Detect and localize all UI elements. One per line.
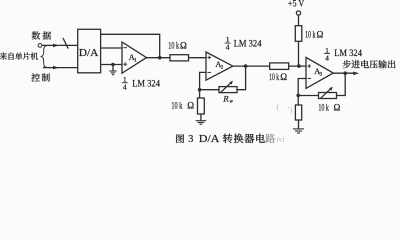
svg-text:3: 3 <box>320 71 323 77</box>
svg-text:’): ’) <box>288 106 293 114</box>
svg-text:Ω: Ω <box>334 102 341 112</box>
svg-text:R: R <box>222 93 229 103</box>
svg-text:D/A: D/A <box>79 48 99 59</box>
svg-text:4: 4 <box>325 53 329 62</box>
svg-text:10 k: 10 k <box>318 102 329 112</box>
svg-text:3: 3 <box>188 134 193 145</box>
svg-text:Ω: Ω <box>280 72 287 82</box>
svg-text:Ω: Ω <box>187 100 194 110</box>
svg-text:10 k: 10 k <box>305 30 316 40</box>
svg-text:(: ( <box>277 103 280 112</box>
svg-text:Ω: Ω <box>180 41 187 51</box>
svg-text:4: 4 <box>123 83 127 92</box>
svg-text:10 k: 10 k <box>168 41 179 51</box>
svg-text:+5 V: +5 V <box>288 0 305 9</box>
svg-text:10 k: 10 k <box>269 72 279 82</box>
svg-text:LM 324: LM 324 <box>234 38 262 49</box>
svg-text:w: w <box>229 99 233 105</box>
svg-text:4: 4 <box>226 42 230 51</box>
svg-text:2: 2 <box>221 65 224 71</box>
svg-text:гсі: гсі <box>277 136 285 144</box>
svg-text:Ω: Ω <box>317 30 324 40</box>
svg-text:D/A: D/A <box>199 134 220 145</box>
svg-text:10 k: 10 k <box>171 100 182 110</box>
svg-text:LM 324: LM 324 <box>334 48 362 59</box>
svg-text:1: 1 <box>134 57 137 63</box>
svg-text:LM 324: LM 324 <box>132 78 160 89</box>
